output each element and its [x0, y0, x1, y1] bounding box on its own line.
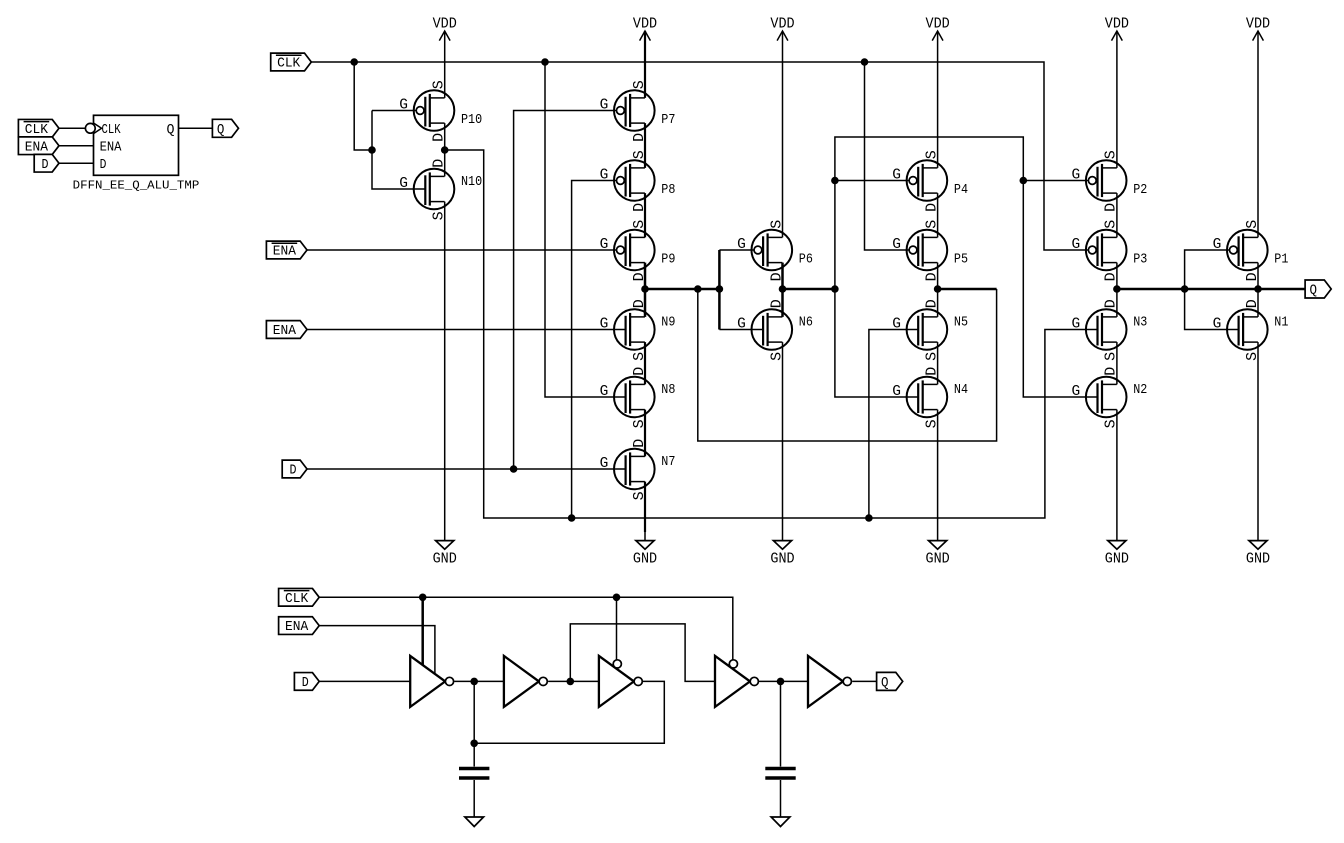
wire U5 output down to C2: [780, 681, 782, 766]
svg-text:P7: P7: [661, 113, 675, 128]
svg-text:D: D: [100, 157, 107, 173]
wire N1 source to GND: [1257, 342, 1259, 540]
svg-text:P2: P2: [1133, 183, 1147, 198]
wire VDD to P7 source: [644, 31, 646, 98]
svg-text:P5: P5: [954, 253, 968, 268]
ground rail1: [433, 541, 457, 568]
junction master node/feedback: [694, 285, 702, 293]
svg-text:P10: P10: [461, 113, 482, 128]
wire D up to P7 gate: [514, 111, 618, 470]
power VDD rail3: [770, 15, 794, 40]
wire U1 Q pin to Q flag: [179, 127, 213, 129]
transistor N7: [600, 439, 655, 501]
capacitor C1: [459, 769, 489, 779]
wire P6 drain to N6 drain: [781, 263, 784, 317]
wire N5 source to N4 drain: [937, 342, 939, 384]
wire N8 source to N7 drain: [644, 410, 646, 457]
flag Q output (main): [1305, 280, 1331, 299]
tristate buffer U5: [715, 656, 758, 707]
svg-text:N2: N2: [1133, 383, 1147, 398]
junction CLKB/N5 branch: [865, 514, 873, 522]
wire CLK bus to P3 gate: [311, 62, 1088, 250]
svg-text:N3: N3: [1133, 315, 1147, 330]
transistor P8: [600, 150, 655, 212]
wire VDD to P2 source: [1116, 31, 1118, 168]
svg-text:N4: N4: [954, 383, 968, 398]
wire P1 drain to N1 drain: [1257, 263, 1259, 317]
svg-text:D: D: [42, 158, 49, 173]
wire slave node to N1 gate: [1185, 289, 1239, 330]
transistor N3: [1071, 299, 1126, 361]
tristate buffer U2: [410, 656, 453, 707]
svg-text:N7: N7: [661, 455, 675, 470]
wire C1 to ground: [473, 780, 475, 817]
junction D/P7 branch: [510, 465, 518, 473]
flag D input (gate-level): [294, 673, 319, 691]
wire U4 output feedback to U2 output node: [474, 681, 664, 743]
wire master node feedback loop: [698, 289, 997, 441]
junction master node/P6-N6 gates: [716, 285, 724, 293]
junction slave node at rail5: [1113, 285, 1121, 293]
transistor N1: [1213, 299, 1268, 361]
svg-text:DFFN_EE_Q_ALU_TMP: DFFN_EE_Q_ALU_TMP: [73, 178, 200, 192]
svg-text:ENA: ENA: [25, 140, 49, 155]
flag CLK (block input): [18, 119, 59, 137]
transistor P5: [892, 220, 947, 282]
wire P4 drain to P5 source: [937, 193, 939, 237]
wire N3 source to N2 drain: [1116, 342, 1118, 384]
junction U5 output node: [777, 678, 785, 686]
flag ENA input (gate-level): [279, 617, 320, 635]
transistor P10: [399, 80, 454, 142]
svg-text:P6: P6: [799, 253, 813, 268]
junction P5/N5 drain node: [934, 285, 942, 293]
transistor N6: [737, 299, 792, 361]
wire to N6 gate: [719, 329, 763, 331]
power VDD rail6: [1246, 15, 1270, 40]
wire CLK down to P10/N10 gate node: [354, 62, 372, 150]
junction CLKB/U4: [613, 594, 621, 602]
wire slave node to P1 gate: [1185, 250, 1230, 289]
flag CLK-bar input (gate-level): [279, 588, 320, 606]
svg-text:P4: P4: [954, 183, 968, 198]
wire slave node P3/N3 drains to Q flag: [1117, 288, 1305, 291]
wire GND pin stub rail2: [644, 532, 646, 541]
transistor N2: [1071, 367, 1126, 429]
wire P9 drain to N9 drain: [644, 263, 647, 317]
svg-text:P3: P3: [1133, 253, 1147, 268]
wire P7 drain to P8 source: [644, 123, 646, 168]
wire C2 to ground: [780, 780, 782, 817]
wire mid node P6/N6 drains: [783, 288, 835, 291]
wire master node P9/N9 drains: [645, 288, 719, 291]
ground rail6: [1246, 541, 1270, 568]
svg-text:CLK: CLK: [25, 123, 49, 138]
wire VDD to P6 source: [782, 31, 784, 237]
junction master node at rail2: [641, 285, 649, 293]
junction mid node at rail3: [779, 285, 787, 293]
junction C1/feedback: [470, 740, 478, 748]
flag CLK input (main): [271, 53, 312, 71]
wire CLKB bus to U5 enable bubble: [319, 597, 733, 660]
power VDD rail5: [1105, 15, 1129, 40]
transistor P7: [600, 80, 655, 142]
flag Q output (gate-level): [877, 672, 903, 691]
transistor P1: [1213, 220, 1268, 282]
ground rail5: [1105, 541, 1129, 568]
clocked inverter U4: [599, 656, 642, 707]
svg-text:N5: N5: [954, 315, 968, 330]
svg-text:CLK: CLK: [102, 122, 122, 138]
junction CLK/N8 gate branch: [541, 58, 549, 66]
wire U2 output to U3 input: [454, 680, 504, 682]
transistor N10: [399, 159, 454, 221]
wire ENA to N9 gate: [307, 329, 626, 331]
junction CLKB/P8 branch: [568, 514, 576, 522]
wire U2 output down to C1: [473, 681, 475, 766]
wire P8 drain to P9 source: [644, 193, 646, 237]
wire CLK down to P5 gate: [865, 62, 910, 250]
svg-text:ENA: ENA: [273, 245, 297, 260]
wire N9 source to N8 drain: [644, 342, 646, 384]
wire D flag to U1 D pin: [59, 162, 94, 164]
transistor N5: [892, 299, 947, 361]
transistor P4: [892, 150, 947, 212]
wire ENA-bar to P9 gate: [307, 249, 617, 251]
svg-text:Q: Q: [1310, 284, 1318, 299]
inverter U6: [808, 656, 851, 707]
svg-text:N6: N6: [799, 315, 813, 330]
wire U3 output over U4 to U5 input: [570, 624, 715, 682]
wire N7 source to GND: [644, 482, 646, 532]
junction CLK/P5 gate branch: [861, 58, 869, 66]
svg-text:N10: N10: [461, 175, 482, 190]
flag Q (block output): [212, 119, 238, 138]
svg-text:ENA: ENA: [273, 324, 297, 339]
wire D to N7 gate: [307, 468, 626, 470]
power VDD rail1: [433, 15, 457, 40]
wire P10 gate to N10 gate: [372, 111, 426, 190]
wire mid node to P4/P2/N2 gates: [835, 137, 1098, 397]
wire U5 output to U6 input: [759, 680, 809, 682]
transistor P6: [737, 220, 792, 282]
wire CLKB up to N5 gate: [869, 330, 919, 519]
transistor P2: [1071, 150, 1126, 212]
flag D input (main): [282, 460, 307, 478]
wire VDD to P1 source: [1257, 31, 1259, 237]
wire feedback to P5/N5 drains: [938, 288, 997, 291]
power VDD rail2: [633, 15, 657, 40]
transistor P9: [600, 220, 655, 282]
junction U2 output node: [470, 678, 478, 686]
svg-text:Q: Q: [167, 122, 175, 138]
ground rail2: [633, 541, 657, 568]
transistor N8: [600, 367, 655, 429]
flag ENA-bar input (main): [266, 241, 307, 259]
svg-text:P9: P9: [661, 253, 675, 268]
wire CLK down to N8 gate: [545, 62, 626, 397]
wire P2 drain to P3 source: [1116, 193, 1118, 237]
wire D to U2 input: [319, 680, 410, 682]
wire to P10 gate: [372, 110, 416, 112]
block U1 DFFN_EE_Q_ALU_TMP: [85, 115, 178, 175]
svg-text:P1: P1: [1274, 253, 1288, 268]
flag D (block input): [34, 154, 59, 172]
wire mid node to P2 gate: [1023, 180, 1088, 182]
wire P5 drain to N5 drain: [937, 263, 939, 317]
wire master node to P6/N6 gates: [718, 250, 721, 330]
flag ENA input (main): [266, 321, 307, 339]
junction CLK/P10 gate branch: [350, 58, 358, 66]
junction CLKB/U2: [419, 594, 427, 602]
ground C2: [771, 817, 790, 827]
svg-text:ENA: ENA: [100, 140, 122, 156]
wire CLKB up to P8 gate: [572, 181, 618, 519]
wire CLKB to U4 enable bubble: [616, 597, 618, 660]
wire P3 drain to N3 drain: [1116, 263, 1118, 317]
junction U3 output node: [567, 678, 575, 686]
svg-text:D: D: [290, 464, 297, 479]
wire N6 source to GND: [782, 342, 784, 540]
flag ENA (block input): [18, 137, 59, 155]
svg-text:ENA: ENA: [285, 620, 309, 635]
inverter U3: [504, 656, 547, 707]
wire mid node to N4 gate: [835, 289, 919, 397]
svg-text:N9: N9: [661, 315, 675, 330]
wire N10 source to GND: [444, 202, 446, 541]
svg-text:P8: P8: [661, 183, 675, 198]
ground rail4: [926, 541, 950, 568]
wire CLK flag to U1 CLK pin: [59, 127, 85, 129]
wire N4 source to GND: [937, 410, 939, 541]
wire ENA to U2 enable pin: [319, 626, 435, 673]
svg-text:CLK: CLK: [285, 592, 309, 607]
wire to P6 gate: [719, 249, 754, 251]
wire CLKB to U2 clock pin: [421, 597, 424, 671]
transistor N9: [600, 299, 655, 361]
wire CLKB from P10/N10 drains to N3 gate: [445, 150, 1098, 518]
svg-text:Q: Q: [881, 676, 889, 691]
svg-text:CLK: CLK: [277, 57, 301, 72]
junction P4 gate: [831, 177, 839, 185]
ground C1: [465, 817, 484, 827]
junction mid node branch: [831, 285, 839, 293]
power VDD rail4: [926, 15, 950, 40]
ground rail3: [770, 541, 794, 568]
wire VDD to P10 source: [444, 31, 446, 98]
junction Q output at rail6: [1254, 285, 1262, 293]
wire mid node to P4 gate: [835, 180, 909, 182]
wire VDD to P4 source: [937, 31, 939, 168]
svg-text:N1: N1: [1274, 315, 1288, 330]
svg-text:N8: N8: [661, 383, 675, 398]
wire U3 output to U4 input: [548, 680, 599, 682]
svg-text:D: D: [302, 676, 309, 691]
transistor N4: [892, 367, 947, 429]
transistor P3: [1071, 220, 1126, 282]
junction P10/N10 drain node: [441, 146, 449, 154]
capacitor C2: [765, 769, 795, 779]
junction P10-N10 gate node: [368, 146, 376, 154]
svg-text:Q: Q: [217, 123, 225, 138]
wire P10 drain to N10 drain: [444, 123, 446, 176]
wire N2 source to GND: [1116, 410, 1118, 541]
wire ENA flag to U1 ENA pin: [59, 145, 94, 147]
junction P2 gate: [1020, 177, 1028, 185]
junction slave node/P1-N1 gates: [1181, 285, 1189, 293]
wire U6 output to Q flag: [852, 680, 876, 682]
